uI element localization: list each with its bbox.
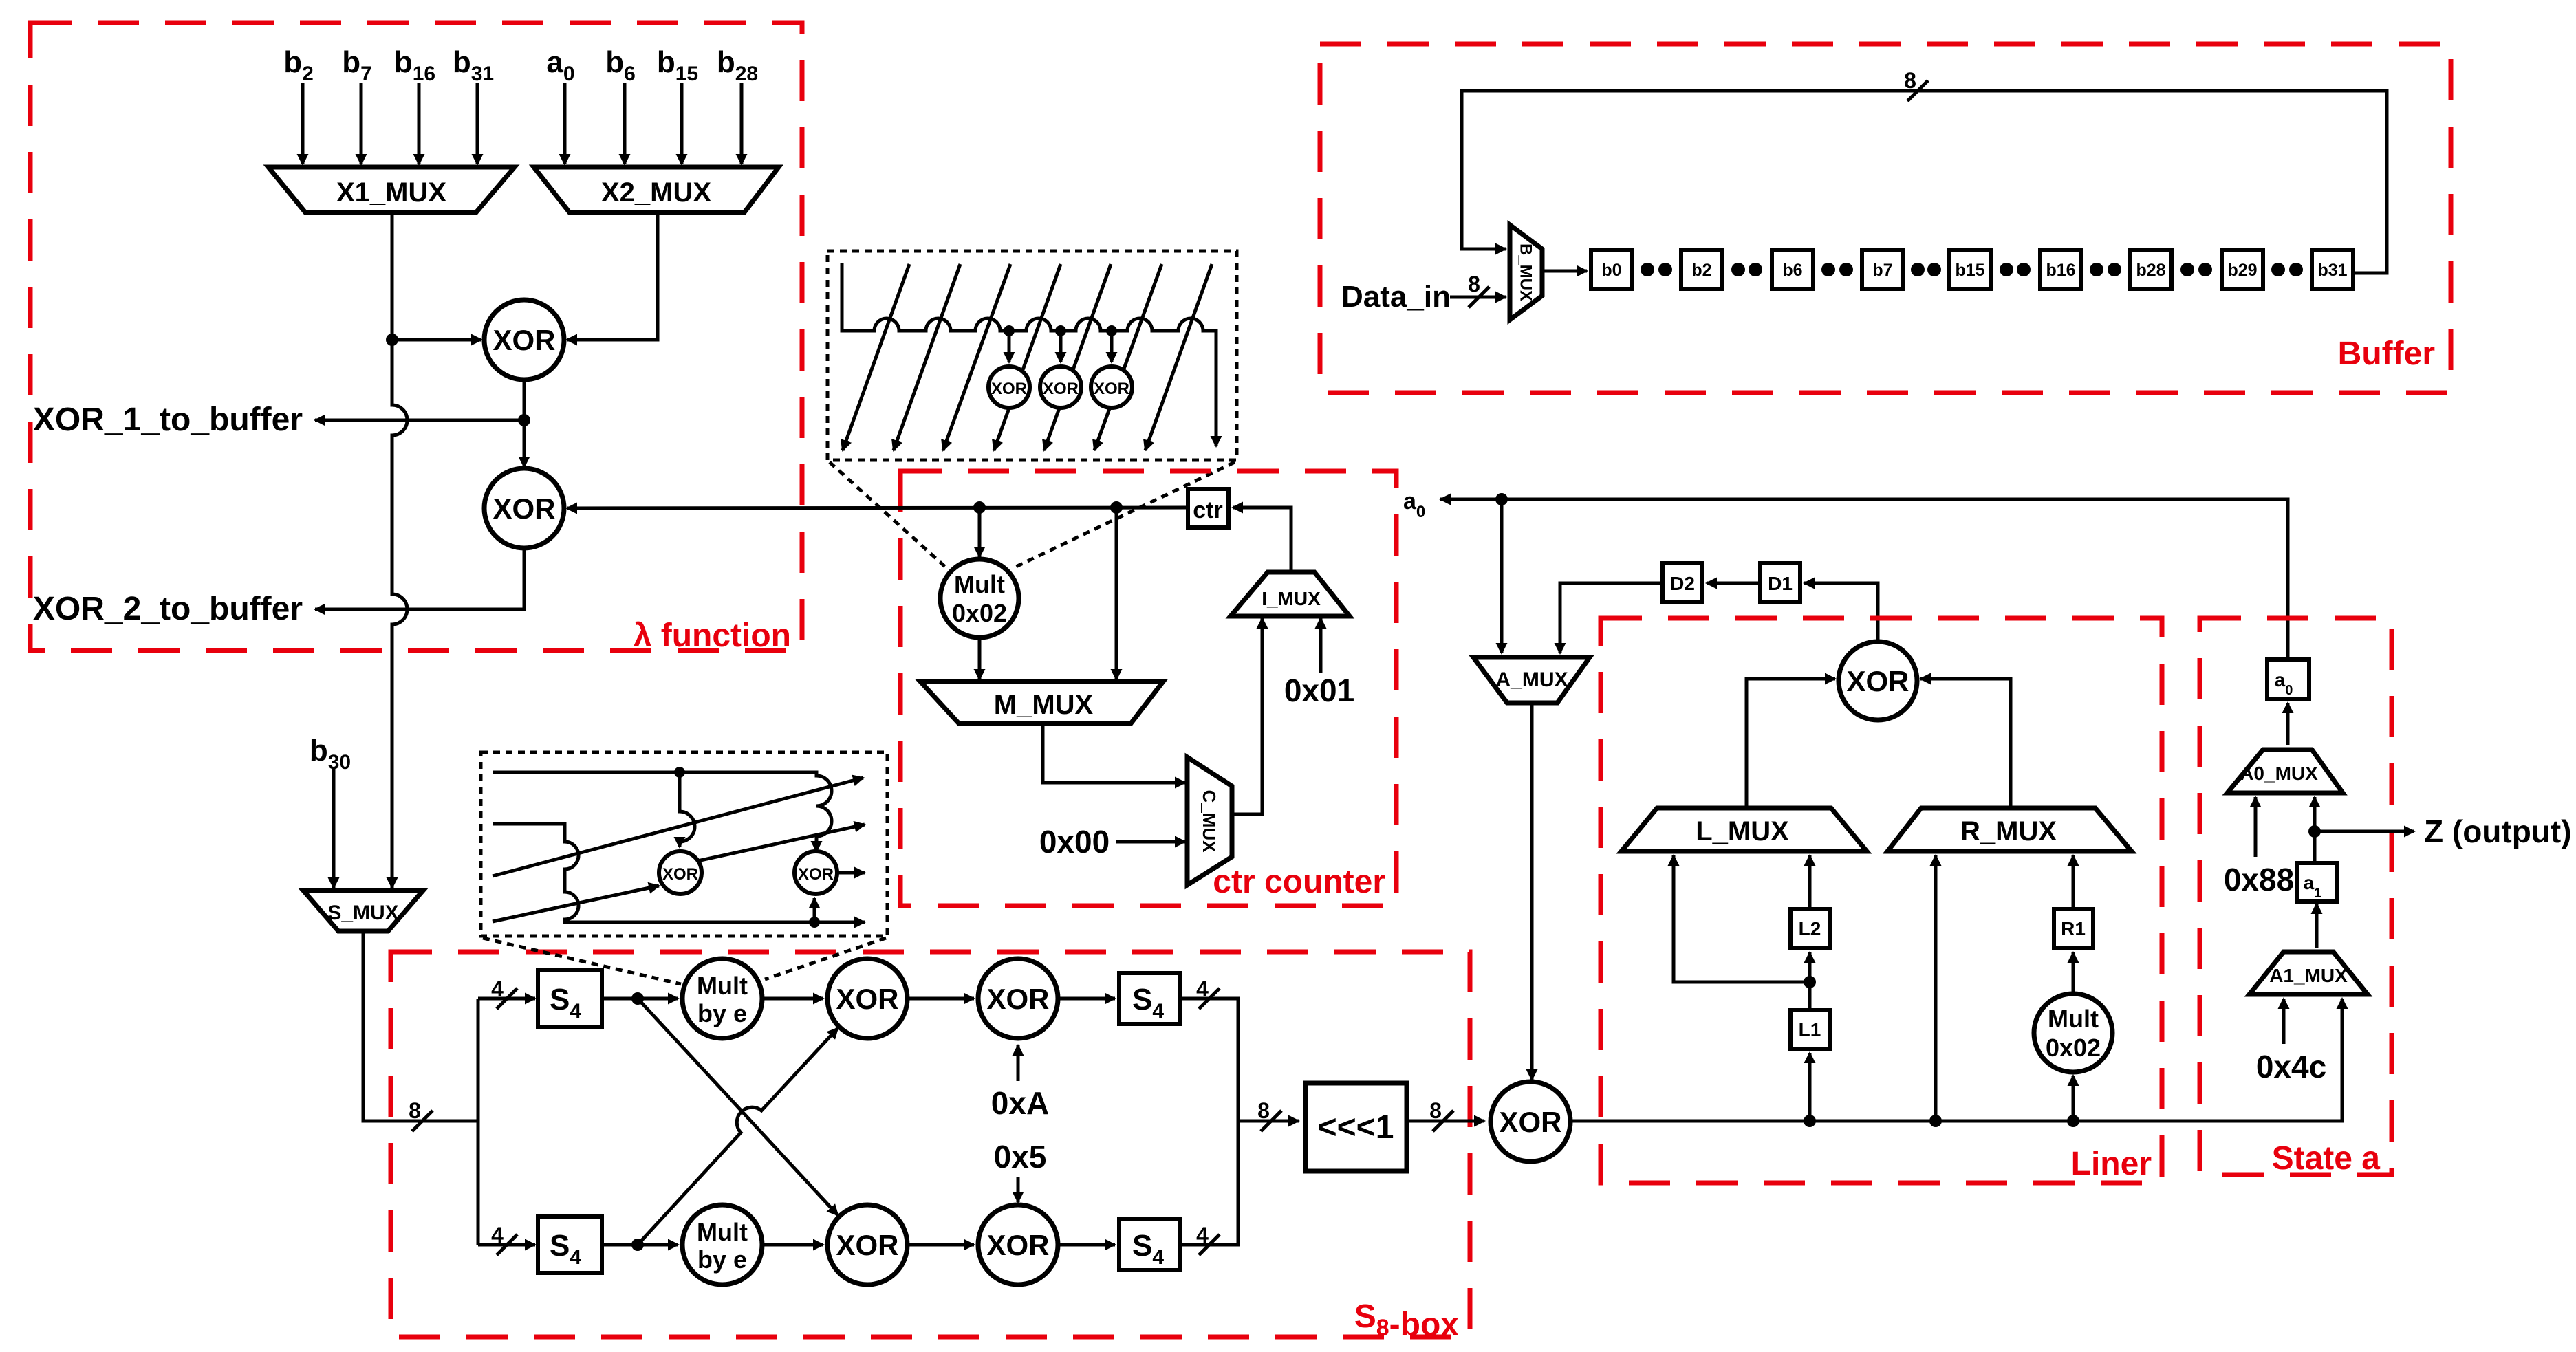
label 8 slash after shifter	[1433, 1111, 1453, 1131]
wire crossing diagonal down	[638, 999, 838, 1215]
svg-text:4: 4	[491, 977, 504, 1001]
junction inset1 bus	[1004, 325, 1015, 336]
svg-text:4: 4	[491, 1223, 504, 1247]
mux I_MUX	[1231, 572, 1350, 616]
wire 0x88 to A0_MUX	[2254, 797, 2258, 857]
svg-text:XOR: XOR	[1043, 380, 1079, 398]
wire XOR_1_to_buffer	[315, 419, 524, 422]
wire XOR liner to D1	[1804, 583, 1878, 642]
junction X1 output	[386, 334, 398, 346]
inset1 wire junction to XOR	[1110, 331, 1114, 362]
inset2 XOR gate right	[794, 851, 837, 894]
svg-text:A_MUX: A_MUX	[1495, 668, 1568, 691]
buffer ellipsis dots	[1641, 263, 1654, 276]
wire A1_MUX to a1	[2315, 904, 2319, 948]
mux X2_MUX	[534, 167, 779, 212]
wire 8-bit to shifter	[1238, 1120, 1299, 1123]
inset2 wire input line 2 L-shape to bottom	[493, 824, 865, 922]
svg-text:Liner: Liner	[2071, 1146, 2152, 1182]
wire shifter to XOR final	[1407, 1120, 1484, 1123]
wire ctr output to XOR2	[567, 508, 1188, 508]
register b2	[1681, 250, 1722, 289]
svg-text:XOR_1_to_buffer: XOR_1_to_buffer	[33, 402, 303, 438]
svg-text:b7: b7	[1872, 261, 1892, 280]
wire bus to Mult liner	[2072, 1076, 2075, 1121]
wire buffer feedback b31 to B_MUX	[1462, 91, 2387, 273]
junction Z output	[2308, 825, 2321, 838]
svg-text:<<<1: <<<1	[1318, 1109, 1394, 1146]
wire R1 to R_MUX	[2072, 855, 2075, 909]
wire junction down to M_MUX right	[1115, 508, 1118, 679]
svg-text:b2: b2	[1691, 261, 1711, 280]
svg-text:by e: by e	[697, 999, 747, 1027]
wire b6 to MUX	[623, 83, 627, 164]
svg-text:0x02: 0x02	[952, 599, 1007, 627]
wire XOR2 output to XOR_2_to_buffer	[315, 547, 524, 609]
wire XOR1 output	[523, 378, 526, 420]
junction S4 bottom output	[631, 1239, 644, 1251]
svg-text:A0_MUX: A0_MUX	[2240, 763, 2318, 784]
mux A1_MUX	[2249, 952, 2368, 994]
inset box Mult by e detail	[481, 752, 887, 936]
multiplier Mult 0x02 (liner)	[2034, 994, 2112, 1072]
buffer ellipsis dots	[1821, 263, 1835, 276]
svg-text:8: 8	[1904, 68, 1916, 93]
junction ctr wire to M_MUX	[1110, 501, 1123, 514]
mux L_MUX	[1621, 808, 1867, 851]
dotted connector left to Mult by e	[483, 938, 681, 984]
wire S4 outputs merge to 8-bit	[1180, 999, 1238, 1245]
wire Z output	[2315, 830, 2414, 833]
dotted connector right to Mult by e	[765, 938, 886, 979]
svg-text:Mult: Mult	[697, 972, 748, 1000]
svg-text:b0: b0	[1601, 261, 1621, 280]
junction bus R_MUX	[1929, 1115, 1942, 1127]
multiplier Mult 0x02 (ctr)	[940, 559, 1019, 637]
svg-text:XOR: XOR	[986, 1229, 1049, 1261]
svg-text:L1: L1	[1799, 1019, 1821, 1040]
wire junction to Mult by e top	[638, 997, 678, 1001]
wire b2 to MUX	[301, 83, 305, 164]
junction inset1 bus	[1106, 325, 1117, 336]
svg-text:b31: b31	[2317, 261, 2347, 280]
svg-text:Mult: Mult	[697, 1218, 748, 1246]
svg-text:0x02: 0x02	[2046, 1034, 2101, 1062]
svg-text:0x01: 0x01	[1284, 673, 1354, 708]
wire bus to R_MUX left	[1934, 855, 1938, 1121]
svg-text:XOR: XOR	[1846, 665, 1909, 697]
XOR gate bottom second	[978, 1205, 1058, 1285]
register R1	[2054, 909, 2093, 948]
wire A0_MUX to a0	[2286, 703, 2290, 745]
wire crossing diagonal up with hop	[638, 1028, 838, 1245]
XOR gate final	[1491, 1082, 1570, 1162]
inset1 XOR gate	[1091, 367, 1132, 408]
State a block box	[2200, 618, 2392, 1175]
inset1 diagonal shift wire	[943, 264, 1010, 450]
svg-text:L2: L2	[1799, 918, 1821, 939]
svg-text:λ function: λ function	[634, 618, 791, 654]
wire B_MUX to b0	[1542, 270, 1587, 273]
junction bus Mult liner	[2067, 1115, 2079, 1127]
svg-text:b28: b28	[2136, 261, 2165, 280]
register S4 bottom-left	[538, 1217, 602, 1273]
svg-text:R1: R1	[2061, 918, 2086, 939]
mux X1_MUX	[268, 167, 515, 212]
register D2	[1663, 563, 1702, 602]
svg-text:S_MUX: S_MUX	[327, 902, 398, 924]
label 8 slash before shifter	[1261, 1111, 1281, 1131]
wire Data_in to B_MUX	[1450, 296, 1506, 299]
svg-text:D2: D2	[1670, 573, 1695, 594]
wire D1 to D2	[1707, 582, 1760, 585]
buffer ellipsis dots	[1731, 263, 1745, 276]
buffer ellipsis dots	[2180, 263, 2194, 276]
wire X2_MUX output to XOR1	[567, 212, 658, 340]
lambda function block box	[30, 23, 802, 651]
svg-text:0x88: 0x88	[2224, 862, 2294, 897]
junction bus L1	[1804, 1115, 1816, 1127]
svg-text:Buffer: Buffer	[2338, 336, 2435, 372]
mux C_MUX	[1187, 757, 1232, 885]
XOR gate top second	[978, 959, 1058, 1038]
svg-text:Mult: Mult	[2048, 1005, 2099, 1033]
wire a1 to A0_MUX	[2313, 797, 2317, 863]
wire 0xA to XOR	[1017, 1045, 1020, 1081]
label 8 slash on Data_in	[1469, 287, 1489, 307]
inset1 XOR gate	[1040, 367, 1081, 408]
wire a0 to MUX	[563, 83, 567, 164]
wire XOR to XOR bottom	[907, 1243, 974, 1247]
wire XOR1 to XOR2	[523, 420, 526, 467]
buffer ellipsis dots	[2090, 263, 2103, 276]
svg-text:XOR: XOR	[991, 380, 1027, 398]
wire b15 to MUX	[680, 83, 684, 164]
wire 0x4c to A1_MUX	[2282, 999, 2286, 1044]
wire L_MUX output to XOR liner	[1746, 679, 1835, 808]
ctr counter block box	[900, 471, 1396, 906]
register b6	[1772, 250, 1813, 289]
inset1 diagonal shift wire	[1145, 264, 1212, 450]
register b16	[2040, 250, 2081, 289]
wire junction down to A_MUX	[1500, 499, 1504, 653]
wire junction to XOR1	[392, 338, 481, 342]
inset2 XOR right output	[837, 871, 865, 875]
svg-text:X1_MUX: X1_MUX	[336, 177, 446, 208]
Liner block box	[1601, 618, 2162, 1183]
register b29	[2222, 250, 2263, 289]
XOR gate 1 (lambda)	[484, 300, 564, 380]
wire XOR to S4 bottom-right	[1058, 1243, 1115, 1247]
buffer ellipsis dots	[1911, 263, 1925, 276]
inset2 XOR gate left	[659, 851, 702, 894]
inset2 wire junction up to XOR right	[813, 898, 816, 922]
label 4 slash bottom right	[1199, 1234, 1220, 1255]
multiplier Mult by e top	[682, 959, 762, 1038]
register b15	[1949, 250, 1991, 289]
svg-text:XOR: XOR	[493, 492, 555, 525]
register b0	[1591, 250, 1632, 289]
svg-text:8: 8	[1429, 1098, 1442, 1123]
register L1	[1790, 1010, 1830, 1049]
svg-text:Z (output): Z (output)	[2424, 814, 2572, 849]
wire nibble feed top with 4 slash	[478, 997, 535, 1001]
Buffer block box	[1320, 44, 2451, 393]
wire L2 to L_MUX	[1808, 855, 1812, 909]
S8-box block box	[391, 952, 1470, 1337]
inset1 bus wire with humps	[842, 263, 1216, 446]
mux S_MUX	[303, 891, 423, 931]
wire S8 input vertical split	[477, 999, 480, 1245]
wire L1 to L2	[1808, 952, 1812, 1010]
wire X1_MUX output down to S_MUX with hops	[392, 212, 407, 888]
inset1 diagonal shift wire	[894, 264, 960, 450]
svg-text:0xA: 0xA	[991, 1085, 1049, 1121]
wire Mult to R1	[2072, 952, 2075, 994]
wire bus to L1	[1808, 1053, 1812, 1121]
inset1 diagonal shift wire	[1094, 264, 1162, 450]
wire b30 to S_MUX	[332, 769, 336, 888]
wire bus corner to A1_MUX right	[2341, 999, 2344, 1121]
inset1 XOR gate	[988, 367, 1030, 408]
svg-text:XOR: XOR	[1094, 380, 1129, 398]
junction ctr wire to Mult	[973, 501, 986, 514]
svg-text:b16: b16	[2046, 261, 2075, 280]
wire R_MUX output to XOR liner	[1920, 679, 2011, 808]
wire b7 to MUX	[360, 83, 363, 164]
wire 0x01 to I_MUX	[1319, 618, 1323, 673]
inset2 wire input line 1 (top)	[493, 772, 832, 851]
wire Mult by e to XOR bottom	[762, 1243, 823, 1247]
wire nibble feed bottom with 4 slash	[478, 1243, 535, 1247]
mux B_MUX	[1510, 225, 1542, 320]
inset1 diagonal shift wire	[994, 264, 1061, 450]
wire junction to Mult by e bottom	[638, 1243, 678, 1247]
wire XOR to XOR top	[907, 997, 974, 1001]
svg-text:ctr: ctr	[1193, 497, 1222, 523]
svg-text:A1_MUX: A1_MUX	[2269, 965, 2348, 986]
dotted connector right to Mult 0x02	[1016, 462, 1235, 567]
wire S_MUX output 8-bit bus	[363, 931, 478, 1121]
junction inset2 bottom line	[809, 917, 820, 928]
svg-text:C_MUX: C_MUX	[1199, 789, 1220, 853]
inset1 wire junction to XOR	[1059, 331, 1063, 362]
svg-text:X2_MUX: X2_MUX	[601, 177, 711, 208]
register L2	[1790, 909, 1830, 948]
svg-text:XOR: XOR	[493, 324, 555, 356]
wire 0x5 to XOR	[1017, 1177, 1020, 1202]
inset1 diagonal shift wire	[843, 264, 909, 450]
wire Mult 0x02 to M_MUX	[978, 637, 982, 679]
shifter <<<1	[1306, 1083, 1407, 1171]
mux R_MUX	[1887, 808, 2132, 851]
wire I_MUX to ctr	[1233, 508, 1291, 572]
wire L1 junction branch to L_MUX left	[1674, 855, 1810, 982]
svg-text:XOR: XOR	[662, 865, 698, 884]
register b7	[1862, 250, 1903, 289]
inset2 wire junction down to XOR left	[680, 772, 695, 847]
svg-text:State a: State a	[2272, 1140, 2381, 1177]
wire b28 to MUX	[740, 83, 744, 164]
wire A_MUX output to XOR final	[1530, 703, 1534, 1080]
svg-text:0x5: 0x5	[994, 1139, 1047, 1175]
svg-text:ctr counter: ctr counter	[1213, 864, 1385, 900]
dotted connector left to Mult 0x02	[830, 462, 945, 567]
svg-text:XOR: XOR	[798, 865, 834, 884]
wire S4 top output to junction	[602, 997, 638, 1001]
label 8 slash on bus	[412, 1111, 433, 1131]
svg-text:M_MUX: M_MUX	[994, 690, 1094, 720]
wire junction down to Mult 0x02	[978, 508, 982, 557]
svg-text:0x00: 0x00	[1039, 824, 1110, 860]
svg-text:XOR: XOR	[836, 1229, 898, 1261]
junction inset1 bus	[1055, 325, 1066, 336]
junction S4 top output	[631, 992, 644, 1005]
register S4 top-left	[538, 970, 602, 1027]
inset1 diagonal shift wire	[1044, 264, 1111, 450]
multiplier Mult by e bottom	[682, 1205, 762, 1285]
junction L1 L2	[1804, 976, 1816, 988]
junction inset2 top line	[674, 767, 685, 778]
register b28	[2130, 250, 2172, 289]
register b31	[2312, 250, 2353, 289]
svg-text:8: 8	[409, 1098, 421, 1123]
svg-text:8: 8	[1257, 1098, 1270, 1123]
svg-text:b29: b29	[2227, 261, 2257, 280]
svg-text:Mult: Mult	[954, 570, 1005, 598]
svg-text:XOR: XOR	[836, 983, 898, 1015]
svg-text:Data_in: Data_in	[1341, 280, 1451, 314]
wire 0x00 to C_MUX	[1116, 840, 1185, 844]
svg-text:R_MUX: R_MUX	[1960, 816, 2057, 847]
wire a0 feedback from State a	[1440, 499, 2288, 659]
label 8 slash on feedback	[1907, 80, 1928, 101]
svg-text:b6: b6	[1782, 261, 1802, 280]
register ctr	[1188, 489, 1229, 527]
wire Mult by e to XOR top	[762, 997, 823, 1001]
svg-text:b15: b15	[1955, 261, 1984, 280]
svg-text:L_MUX: L_MUX	[1696, 816, 1789, 847]
register S4 top-right	[1119, 973, 1180, 1024]
svg-text:0x4c: 0x4c	[2256, 1049, 2326, 1084]
XOR gate liner	[1839, 642, 1917, 720]
label 4 slash top right	[1199, 988, 1220, 1009]
svg-text:XOR: XOR	[1499, 1106, 1561, 1138]
svg-text:by e: by e	[697, 1245, 747, 1274]
wire D2 to A_MUX	[1560, 583, 1663, 653]
XOR gate bottom first	[827, 1205, 907, 1285]
svg-text:B_MUX: B_MUX	[1517, 243, 1535, 301]
register a1	[2297, 863, 2337, 902]
mux A_MUX	[1473, 657, 1590, 703]
inset box Mult 0x02 detail	[827, 251, 1237, 460]
XOR gate 2 (lambda)	[484, 468, 564, 548]
inset2 diagonal input 3	[493, 778, 863, 876]
register S4 bottom-right	[1119, 1219, 1180, 1270]
wire XOR final output bus	[1570, 999, 2342, 1121]
wire M_MUX output to C_MUX	[1043, 723, 1185, 783]
svg-text:8: 8	[1468, 272, 1480, 296]
wire C_MUX output to I_MUX	[1232, 618, 1262, 814]
buffer ellipsis dots	[2000, 263, 2013, 276]
svg-text:XOR: XOR	[986, 983, 1049, 1015]
wire b31 to MUX	[476, 83, 479, 164]
junction XOR1 output	[518, 414, 530, 426]
svg-text:XOR_2_to_buffer: XOR_2_to_buffer	[33, 591, 303, 627]
XOR gate top first	[827, 959, 907, 1038]
register D1	[1760, 563, 1800, 602]
mux A0_MUX	[2227, 750, 2343, 793]
mux M_MUX	[920, 682, 1163, 723]
svg-text:D1: D1	[1768, 573, 1793, 594]
svg-text:I_MUX: I_MUX	[1262, 588, 1321, 609]
inset2 diagonal input 4 into XOR left	[493, 886, 659, 922]
wire S4 bottom output to junction	[602, 1243, 638, 1247]
inset1 wire junction to XOR	[1008, 331, 1011, 362]
junction a0 wire to A_MUX	[1495, 493, 1508, 505]
wire b16 to MUX	[418, 83, 421, 164]
buffer ellipsis dots	[2271, 263, 2285, 276]
wire XOR to S4 top-right	[1058, 997, 1115, 1001]
inset2 XOR left output diagonal	[697, 825, 865, 861]
register a0	[2267, 659, 2309, 699]
